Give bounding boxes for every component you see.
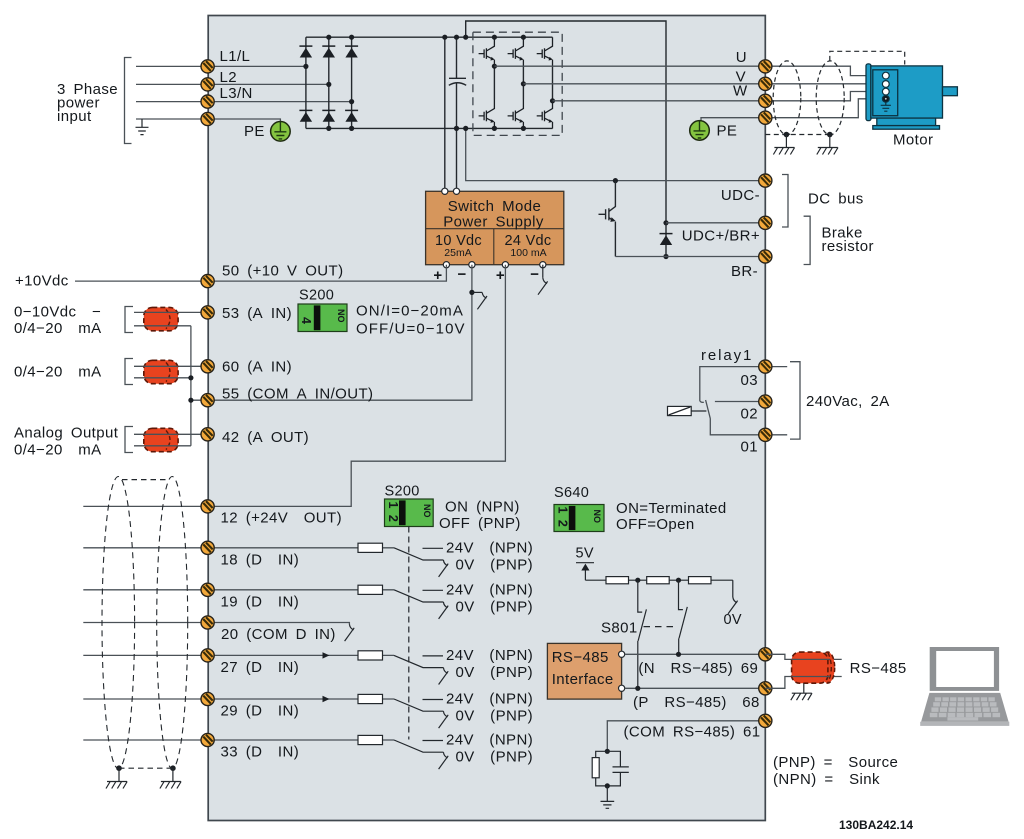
- shield dashed bond wire: [765, 134, 830, 136]
- wire relay common 03: [700, 367, 787, 403]
- shield dashed bond left: [119, 767, 173, 769]
- svg-text:100 mA: 100 mA: [510, 247, 546, 259]
- terminal V: [759, 77, 772, 90]
- input group bracket: [125, 58, 132, 144]
- svg-text:S200: S200: [299, 288, 334, 304]
- wire P RS-485 to 68: [625, 687, 759, 689]
- svg-text:ON=Terminated: ON=Terminated: [616, 500, 727, 517]
- ferrite bead 53: [144, 307, 178, 330]
- svg-text:18 (D IN): 18 (D IN): [221, 551, 300, 568]
- RFI filter 33: [358, 735, 383, 744]
- wire overlay bead 42: [144, 434, 178, 446]
- shield drain wires: [786, 135, 829, 148]
- 10V- disconnect stub: [472, 291, 482, 293]
- terminal 33: [201, 733, 214, 746]
- IGBT T2: [508, 37, 524, 66]
- terminal L2: [201, 78, 214, 91]
- junction dots analog common: [188, 375, 193, 380]
- terminal BR-: [759, 250, 772, 263]
- DC bus bracket: [782, 175, 788, 228]
- switch hook (0V): [728, 597, 738, 614]
- switch blade 27: [394, 655, 443, 667]
- svg-text:03: 03: [741, 372, 759, 389]
- wire 42 top: [134, 433, 208, 435]
- laptop icon: [920, 647, 1009, 726]
- S200 dashed gang line: [408, 527, 410, 740]
- wire 60 return: [134, 377, 191, 379]
- switch blade 33: [394, 740, 443, 752]
- wire L1 input: [136, 65, 306, 67]
- terminal 29: [201, 692, 214, 705]
- RC network junction top: [605, 749, 610, 754]
- svg-text:4: 4: [299, 317, 313, 324]
- capacitor C2 (COM RC): [607, 751, 629, 786]
- switch blade 29: [394, 699, 443, 711]
- bracket 60: [125, 359, 133, 385]
- switch hook (24V-): [538, 278, 548, 295]
- diode D3 top: [345, 46, 358, 57]
- terminal 02: [759, 395, 772, 408]
- svg-text:24V (NPN): 24V (NPN): [446, 732, 533, 749]
- diode D2 top: [322, 46, 335, 57]
- analog common vertical: [190, 326, 192, 446]
- motor cable shield oval 1: [773, 61, 801, 135]
- svg-text:55 (COM A IN/OUT): 55 (COM A IN/OUT): [222, 385, 373, 402]
- wire DC- to UDC- terminal: [466, 128, 759, 180]
- shield drain dots left: [116, 765, 122, 771]
- wire overlay bead 60: [144, 366, 178, 378]
- terminal 68: [759, 682, 772, 695]
- motor earth symbol: [881, 102, 891, 111]
- S640 DIP switch: [554, 505, 604, 532]
- svg-text:42 (A OUT): 42 (A OUT): [222, 429, 309, 446]
- svg-text:50 (+10 V OUT): 50 (+10 V OUT): [222, 263, 344, 280]
- svg-text:OFF (PNP): OFF (PNP): [439, 515, 521, 532]
- S801 switch 2: [679, 580, 683, 609]
- relay coil: [668, 406, 692, 415]
- ferrite bead 60: [144, 360, 178, 383]
- motor end cap: [866, 64, 871, 121]
- IGBT T1: [479, 37, 495, 66]
- ferrite bead RS-485: [792, 652, 835, 683]
- terminal 53: [201, 306, 214, 319]
- wire 53 return: [134, 325, 191, 327]
- wire 10V+ to terminal 50: [75, 265, 446, 281]
- svg-text:−: −: [530, 266, 539, 283]
- wire 18: [83, 547, 394, 549]
- svg-text:S801: S801: [601, 620, 638, 637]
- svg-text:60 (A IN): 60 (A IN): [222, 359, 292, 376]
- terminal 03: [759, 360, 772, 373]
- interface pins: [619, 651, 625, 657]
- inverter leg 3 link: [552, 66, 554, 99]
- svg-text:0V (PNP): 0V (PNP): [456, 749, 534, 766]
- wire W output: [553, 92, 884, 101]
- S200 digital DIP switch: [385, 499, 434, 527]
- svg-text:+10Vdc: +10Vdc: [15, 273, 69, 290]
- IGBT T5: [508, 100, 524, 129]
- motor cable shield oval 2: [816, 61, 844, 135]
- motor body: [871, 66, 943, 118]
- svg-text:0−10Vdc −: 0−10Vdc −: [14, 304, 101, 321]
- svg-text:0V (PNP): 0V (PNP): [456, 556, 534, 573]
- junction dot 68 wire: [635, 686, 640, 691]
- terminal PE right: [759, 111, 772, 124]
- switch hook (10V-): [477, 292, 487, 309]
- RFI filter 19: [358, 585, 383, 594]
- svg-text:0V (PNP): 0V (PNP): [456, 664, 534, 681]
- wire relay NC 02: [715, 401, 765, 403]
- wire N RS-485 to 69: [625, 653, 759, 655]
- rectifier column 2: [328, 37, 330, 128]
- svg-text:25mA: 25mA: [444, 247, 471, 259]
- 5V supply symbol: [576, 563, 594, 581]
- diode D4 bottom: [299, 110, 312, 121]
- svg-text:(P RS−485) 68: (P RS−485) 68: [633, 694, 760, 711]
- junction dots DC link: [442, 35, 668, 260]
- svg-text:24V (NPN): 24V (NPN): [446, 540, 533, 557]
- ground (control shield 2): [160, 782, 181, 789]
- wire 12 left: [83, 505, 207, 507]
- bracket 42: [125, 427, 133, 453]
- junction dot 69 wire: [676, 652, 681, 657]
- svg-text:(COM RS−485) 61: (COM RS−485) 61: [624, 723, 761, 740]
- svg-text:Analog Output: Analog Output: [14, 425, 119, 442]
- RFI filter 18: [358, 543, 383, 552]
- svg-text:53 (A IN): 53 (A IN): [222, 305, 292, 322]
- wire U output: [494, 66, 883, 75]
- wire overlay RS-485 ferrite: [792, 659, 830, 676]
- junction dots inverter: [492, 35, 555, 131]
- RC network junction bottom: [605, 783, 610, 788]
- wire 27: [83, 654, 394, 656]
- terminal 60: [201, 360, 214, 373]
- svg-text:S200: S200: [385, 484, 420, 500]
- svg-text:ON/I=0−20mA: ON/I=0−20mA: [356, 303, 464, 320]
- wire overlay bead 53: [144, 312, 178, 325]
- svg-text:1 2: 1 2: [556, 507, 570, 529]
- svg-text:01: 01: [741, 438, 759, 455]
- terminal 27: [201, 649, 214, 662]
- wire L2 input: [136, 83, 329, 85]
- wire V output: [523, 83, 883, 85]
- bracket 53: [125, 307, 133, 333]
- PE earth circle left: [271, 122, 291, 142]
- svg-text:0V: 0V: [724, 612, 742, 628]
- svg-text:ON: ON: [337, 309, 347, 323]
- wire 29: [83, 698, 394, 700]
- ground (cable shield 2): [817, 148, 838, 155]
- brake chopper IGBT: [599, 181, 616, 221]
- wire 19: [83, 589, 394, 591]
- terminal PE left: [201, 112, 214, 125]
- svg-text:OFF=Open: OFF=Open: [616, 516, 695, 533]
- wire 33: [83, 739, 394, 741]
- diode D6 bottom: [345, 110, 358, 121]
- wire L3 input: [136, 101, 352, 103]
- IGBT T4: [479, 100, 495, 129]
- wire 68 to ferrite: [765, 677, 841, 689]
- svg-text:L1/L: L1/L: [220, 48, 251, 65]
- switch blade 19: [394, 590, 443, 602]
- SMPS box: [426, 191, 564, 264]
- IGBT T6: [537, 100, 553, 129]
- Brake resistor bracket: [804, 216, 811, 264]
- rectifier column 1: [305, 37, 307, 128]
- motor terminal PE: [882, 95, 889, 102]
- svg-text:+: +: [496, 267, 505, 284]
- terminal 42: [201, 428, 214, 441]
- ground (input earth): [136, 119, 149, 135]
- capacitor C1 (DC link): [449, 78, 466, 85]
- S200 analog DIP switch: [298, 304, 347, 332]
- terminal 18: [201, 541, 214, 554]
- wire PE right to motor: [701, 99, 883, 121]
- svg-text:L3/N: L3/N: [220, 85, 253, 102]
- resistor R4 (COM RC): [596, 751, 608, 757]
- svg-text:S640: S640: [554, 485, 589, 501]
- switch hook 33: [439, 752, 449, 769]
- svg-text:19 (D IN): 19 (D IN): [221, 593, 300, 610]
- junction dots pull-ups: [635, 578, 640, 583]
- ferrite bead 42: [144, 428, 178, 451]
- wire UDC+/BR+: [666, 222, 759, 224]
- terminal UDC+/BR+: [759, 216, 772, 229]
- RFI filter 27: [358, 651, 383, 660]
- switch hook 27: [439, 668, 449, 685]
- wire PE input to PE circle: [136, 119, 280, 122]
- svg-text:ON (NPN): ON (NPN): [445, 499, 520, 516]
- terminal 19: [201, 583, 214, 596]
- resistor R2 (pull-up): [647, 577, 670, 584]
- shield drain dots: [784, 132, 790, 138]
- terminal 01: [759, 428, 772, 441]
- motor base upper: [877, 118, 936, 126]
- switch hook 20: [345, 624, 355, 641]
- control cable shield oval 2: [157, 477, 188, 769]
- terminal 20: [201, 616, 214, 629]
- motor base lower: [873, 126, 940, 130]
- svg-text:0/4−20 mA: 0/4−20 mA: [14, 442, 102, 459]
- RFI filter 29: [358, 694, 383, 703]
- svg-text:DC bus: DC bus: [808, 191, 864, 208]
- resistor R3 (pull-up): [689, 577, 712, 584]
- wire 53 top: [134, 311, 208, 313]
- arrow 27: [323, 652, 330, 658]
- wire 42 return: [134, 445, 191, 447]
- motor terminal U: [882, 72, 889, 79]
- svg-text:29 (D IN): 29 (D IN): [221, 703, 300, 720]
- SMPS top pins: [442, 188, 448, 194]
- svg-text:−: −: [458, 266, 467, 283]
- DC+ top bus: [306, 36, 553, 38]
- SMPS bottom pins: [443, 262, 449, 268]
- RS-485 interface box: [547, 643, 621, 699]
- motor shaft: [943, 87, 958, 96]
- svg-text:02: 02: [741, 405, 759, 422]
- wire 60 top: [134, 365, 208, 367]
- terminal W: [759, 94, 772, 107]
- 24V- stub: [542, 265, 544, 278]
- rail to SMPS left pin: [444, 37, 446, 191]
- wire 69 to ferrite: [765, 654, 841, 659]
- inverter leg 2 link: [522, 66, 524, 99]
- wire 61 COM: [607, 721, 765, 752]
- rectifier column 3: [351, 37, 353, 128]
- svg-text:Power Supply: Power Supply: [443, 213, 544, 230]
- svg-text:RS−485: RS−485: [552, 649, 609, 666]
- svg-text:OFF/U=0−10V: OFF/U=0−10V: [356, 321, 466, 338]
- resistor R1 (pull-up): [606, 577, 629, 584]
- svg-text:0V (PNP): 0V (PNP): [456, 598, 534, 615]
- shield dashed wire to motor: [830, 51, 905, 64]
- svg-text:12 (+24V OUT): 12 (+24V OUT): [221, 510, 343, 527]
- junction dots rectifier: [303, 35, 354, 131]
- svg-text:(NPN) = Sink: (NPN) = Sink: [773, 771, 880, 788]
- control cable shield oval 1: [102, 477, 135, 769]
- DC- bottom bus: [306, 127, 553, 129]
- svg-text:Interface: Interface: [552, 671, 614, 688]
- svg-text:24V (NPN): 24V (NPN): [446, 647, 533, 664]
- svg-text:RS−485: RS−485: [850, 660, 907, 677]
- wire 24V+ to terminal 12: [208, 265, 506, 507]
- relay bracket: [790, 362, 800, 439]
- switch hook 18: [439, 560, 449, 577]
- IGBT T3: [537, 37, 553, 66]
- svg-text:27 (D IN): 27 (D IN): [221, 659, 300, 676]
- svg-text:UDC-: UDC-: [721, 187, 760, 204]
- svg-text:UDC+/BR+: UDC+/BR+: [682, 228, 760, 245]
- wire 20 common: [83, 623, 349, 625]
- ground (control shield 1): [106, 782, 127, 789]
- svg-text:BR-: BR-: [731, 263, 758, 280]
- S801 switch 1: [638, 580, 642, 612]
- switch hook 19: [439, 602, 449, 619]
- terminal 69: [759, 648, 772, 661]
- S801 gang dashes: [644, 626, 678, 628]
- svg-text:240Vac, 2A: 240Vac, 2A: [806, 393, 890, 410]
- motor terminal box: [873, 70, 898, 116]
- shield drain wires left: [119, 768, 173, 781]
- SMPS divider lines: [426, 229, 564, 265]
- drive enclosure box: [208, 16, 765, 821]
- svg-text:W: W: [733, 83, 748, 100]
- svg-text:1 2: 1 2: [386, 502, 400, 524]
- switch blade 18: [394, 548, 443, 560]
- inverter leg 1 link: [493, 66, 495, 99]
- pull-up wire: [585, 579, 732, 581]
- ground (COM RC): [601, 786, 615, 808]
- svg-text:33 (D IN): 33 (D IN): [221, 744, 300, 761]
- terminal UDC-: [759, 174, 772, 187]
- wire 10V- common to terminal 55: [191, 265, 472, 401]
- diode D5 bottom: [322, 110, 335, 121]
- svg-text:resistor: resistor: [822, 238, 874, 255]
- svg-text:24V (NPN): 24V (NPN): [446, 582, 533, 599]
- rail with DC-link capacitor: [456, 37, 458, 191]
- relay blade: [706, 400, 711, 419]
- svg-text:ON: ON: [593, 510, 603, 524]
- brake diode: [665, 223, 667, 257]
- svg-text:130BA242.14: 130BA242.14: [839, 818, 913, 832]
- svg-text:input: input: [57, 108, 92, 125]
- ground (RS-485 ferrite): [791, 693, 812, 700]
- terminal 55: [201, 394, 214, 407]
- PE earth circle right: [690, 121, 710, 141]
- diode D1 top: [299, 46, 312, 57]
- svg-text:L2: L2: [220, 69, 238, 86]
- svg-text:(N RS−485) 69: (N RS−485) 69: [638, 660, 758, 677]
- svg-text:0/4−20 mA: 0/4−20 mA: [14, 320, 102, 337]
- wire BR-: [615, 256, 759, 258]
- junction dot 10V-: [469, 290, 474, 295]
- svg-text:U: U: [736, 49, 747, 66]
- terminal L1/L: [201, 60, 214, 73]
- terminal L3/N: [201, 95, 214, 108]
- motor terminal W: [882, 88, 889, 95]
- terminal 61: [759, 714, 772, 727]
- 0V drop wire: [732, 580, 734, 597]
- svg-text:5V: 5V: [576, 546, 594, 562]
- ferrite ground wire: [803, 683, 805, 693]
- terminal U: [759, 60, 772, 73]
- ground (cable shield 1): [773, 148, 794, 155]
- svg-text:PE: PE: [244, 123, 265, 140]
- svg-text:0/4−20 mA: 0/4−20 mA: [14, 364, 102, 381]
- svg-text:PE: PE: [717, 123, 738, 140]
- inverter dashed box: [473, 32, 562, 135]
- arrow 29: [323, 696, 330, 702]
- svg-text:(PNP) = Source: (PNP) = Source: [773, 754, 898, 771]
- svg-text:0V (PNP): 0V (PNP): [456, 708, 534, 725]
- svg-text:20 (COM D IN): 20 (COM D IN): [221, 626, 336, 643]
- wire relay NO 01: [710, 419, 787, 435]
- terminal 12: [201, 500, 214, 513]
- DC+ top rail to UDC+: [466, 21, 666, 223]
- motor terminal V: [882, 81, 889, 88]
- shield dashed bond top left: [122, 479, 169, 481]
- terminal 50: [201, 275, 214, 288]
- svg-text:Motor: Motor: [893, 131, 933, 148]
- svg-text:24V (NPN): 24V (NPN): [446, 691, 533, 708]
- svg-text:ON: ON: [423, 504, 433, 518]
- switch hook 29: [439, 711, 449, 728]
- svg-text:relay1: relay1: [701, 347, 753, 364]
